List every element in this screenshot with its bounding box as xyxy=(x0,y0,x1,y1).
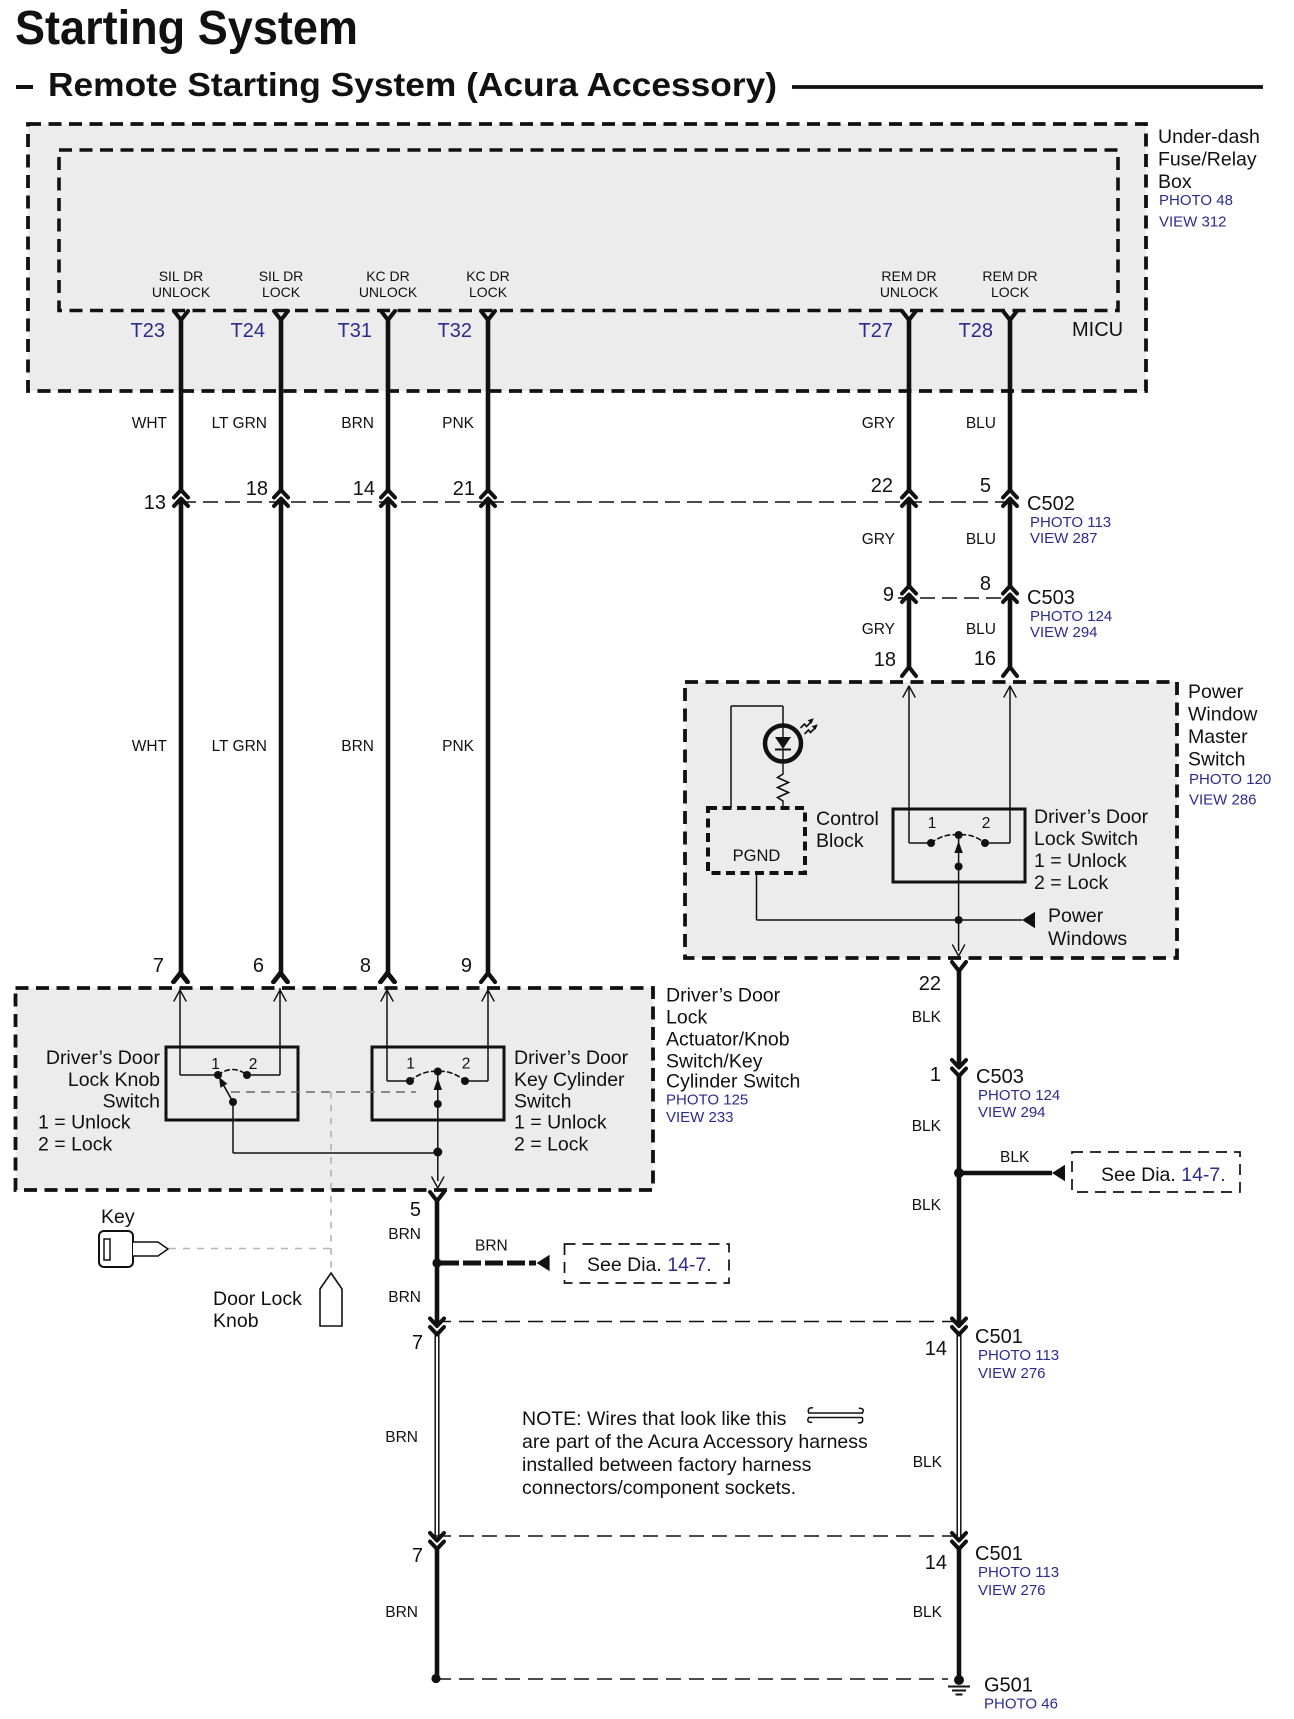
svg-text:VIEW 233: VIEW 233 xyxy=(666,1109,734,1126)
svg-text:PHOTO 120: PHOTO 120 xyxy=(1189,771,1271,788)
svg-text:T23: T23 xyxy=(131,320,165,342)
svg-text:LOCK: LOCK xyxy=(469,284,508,300)
svg-text:BRN: BRN xyxy=(385,1604,418,1621)
svg-text:T27: T27 xyxy=(859,320,893,342)
svg-text:7: 7 xyxy=(153,955,164,977)
svg-text:C503: C503 xyxy=(976,1066,1024,1088)
svg-text:Driver’s Door: Driver’s Door xyxy=(1034,806,1149,828)
svg-text:22: 22 xyxy=(871,475,893,497)
svg-text:6: 6 xyxy=(253,955,264,977)
svg-text:Driver’s Door: Driver’s Door xyxy=(46,1047,161,1069)
svg-text:8: 8 xyxy=(980,573,991,595)
svg-text:BLU: BLU xyxy=(966,531,996,548)
svg-text:8: 8 xyxy=(360,955,371,977)
svg-text:C501: C501 xyxy=(975,1326,1023,1348)
svg-text:Actuator/Knob: Actuator/Knob xyxy=(666,1029,790,1051)
svg-text:connectors/component sockets.: connectors/component sockets. xyxy=(522,1477,796,1499)
svg-text:7: 7 xyxy=(412,1545,423,1567)
svg-text:LOCK: LOCK xyxy=(991,284,1030,300)
svg-text:BRN: BRN xyxy=(475,1238,508,1255)
svg-text:VIEW 312: VIEW 312 xyxy=(1159,214,1227,231)
svg-text:PHOTO 124: PHOTO 124 xyxy=(1030,608,1112,625)
svg-text:VIEW 286: VIEW 286 xyxy=(1189,792,1257,809)
svg-text:T32: T32 xyxy=(438,320,472,342)
svg-text:Master: Master xyxy=(1188,726,1248,748)
svg-text:PHOTO 124: PHOTO 124 xyxy=(978,1087,1060,1104)
svg-text:PHOTO 113: PHOTO 113 xyxy=(1030,514,1111,531)
svg-text:13: 13 xyxy=(144,492,166,514)
svg-text:PGND: PGND xyxy=(733,847,781,865)
svg-text:BLK: BLK xyxy=(1000,1149,1030,1166)
svg-text:BRN: BRN xyxy=(388,1289,421,1306)
svg-text:PNK: PNK xyxy=(442,738,475,755)
svg-text:VIEW 294: VIEW 294 xyxy=(978,1104,1046,1121)
svg-text:2: 2 xyxy=(982,815,991,832)
svg-text:T28: T28 xyxy=(959,320,993,342)
svg-text:Door Lock: Door Lock xyxy=(213,1288,302,1310)
svg-text:2 = Lock: 2 = Lock xyxy=(514,1134,589,1156)
svg-text:Control: Control xyxy=(816,808,879,830)
svg-text:5: 5 xyxy=(980,475,991,497)
svg-text:1: 1 xyxy=(930,1064,941,1086)
svg-text:22: 22 xyxy=(919,973,941,995)
svg-text:1 = Unlock: 1 = Unlock xyxy=(1034,850,1127,872)
svg-text:BLK: BLK xyxy=(912,1009,942,1026)
svg-text:1: 1 xyxy=(406,1056,415,1073)
svg-text:Box: Box xyxy=(1158,171,1192,193)
svg-text:WHT: WHT xyxy=(132,738,168,755)
svg-text:KC DR: KC DR xyxy=(366,268,410,284)
svg-text:UNLOCK: UNLOCK xyxy=(152,284,211,300)
svg-text:Switch: Switch xyxy=(514,1091,571,1113)
svg-text:VIEW 287: VIEW 287 xyxy=(1030,530,1098,547)
svg-text:KC DR: KC DR xyxy=(466,268,510,284)
svg-text:BLK: BLK xyxy=(912,1197,942,1214)
svg-text:VIEW 276: VIEW 276 xyxy=(978,1365,1046,1382)
svg-text:14: 14 xyxy=(925,1338,947,1360)
svg-text:PHOTO 46: PHOTO 46 xyxy=(984,1696,1058,1713)
svg-text:UNLOCK: UNLOCK xyxy=(359,284,418,300)
svg-text:14: 14 xyxy=(925,1552,947,1574)
svg-text:C501: C501 xyxy=(975,1543,1023,1565)
svg-text:PHOTO 125: PHOTO 125 xyxy=(666,1092,748,1109)
svg-text:Starting System: Starting System xyxy=(15,1,358,55)
svg-text:LT GRN: LT GRN xyxy=(212,415,267,432)
svg-text:See Dia. 14-7.: See Dia. 14-7. xyxy=(1101,1164,1226,1186)
svg-text:18: 18 xyxy=(874,649,896,671)
svg-text:18: 18 xyxy=(246,478,268,500)
svg-text:PNK: PNK xyxy=(442,415,475,432)
svg-text:Power: Power xyxy=(1188,681,1244,703)
svg-text:are part of the Acura Accessor: are part of the Acura Accessory harness xyxy=(522,1431,868,1453)
svg-text:T31: T31 xyxy=(338,320,372,342)
svg-text:Block: Block xyxy=(816,830,864,852)
svg-text:Switch: Switch xyxy=(103,1091,160,1113)
svg-text:Window: Window xyxy=(1188,704,1258,726)
svg-text:Cylinder Switch: Cylinder Switch xyxy=(666,1071,800,1093)
svg-text:2 = Lock: 2 = Lock xyxy=(38,1134,113,1156)
svg-text:Switch: Switch xyxy=(1188,749,1245,771)
svg-text:Key Cylinder: Key Cylinder xyxy=(514,1069,625,1091)
svg-text:LT GRN: LT GRN xyxy=(212,738,267,755)
svg-text:Remote Starting System (Acura: Remote Starting System (Acura Accessory) xyxy=(48,66,777,103)
svg-text:2 = Lock: 2 = Lock xyxy=(1034,872,1109,894)
svg-text:installed between factory harn: installed between factory harness xyxy=(522,1454,812,1476)
svg-text:Driver’s Door: Driver’s Door xyxy=(514,1047,629,1069)
svg-text:21: 21 xyxy=(453,478,475,500)
svg-text:9: 9 xyxy=(461,955,472,977)
svg-text:Knob: Knob xyxy=(213,1310,259,1332)
svg-text:C502: C502 xyxy=(1027,493,1075,515)
svg-text:T24: T24 xyxy=(231,320,265,342)
svg-text:GRY: GRY xyxy=(862,531,895,548)
svg-text:1 = Unlock: 1 = Unlock xyxy=(38,1112,131,1134)
svg-text:REM DR: REM DR xyxy=(881,268,936,284)
svg-text:SIL DR: SIL DR xyxy=(159,268,204,284)
svg-text:Lock Switch: Lock Switch xyxy=(1034,828,1138,850)
svg-text:BLK: BLK xyxy=(912,1118,942,1135)
svg-text:REM DR: REM DR xyxy=(982,268,1037,284)
svg-text:PHOTO 48: PHOTO 48 xyxy=(1159,192,1233,209)
svg-text:See Dia. 14-7.: See Dia. 14-7. xyxy=(587,1254,712,1276)
svg-text:Key: Key xyxy=(101,1206,135,1228)
svg-text:VIEW 276: VIEW 276 xyxy=(978,1582,1046,1599)
svg-text:BLK: BLK xyxy=(913,1604,943,1621)
svg-text:1: 1 xyxy=(928,815,937,832)
svg-text:C503: C503 xyxy=(1027,587,1075,609)
svg-text:14: 14 xyxy=(353,478,375,500)
svg-text:BRN: BRN xyxy=(388,1226,421,1243)
svg-text:WHT: WHT xyxy=(132,415,168,432)
svg-text:2: 2 xyxy=(249,1056,258,1073)
svg-text:VIEW 294: VIEW 294 xyxy=(1030,624,1098,641)
svg-text:GRY: GRY xyxy=(862,415,895,432)
svg-text:NOTE: Wires that look like thi: NOTE: Wires that look like this xyxy=(522,1408,787,1430)
svg-text:Lock: Lock xyxy=(666,1007,707,1029)
svg-text:Windows: Windows xyxy=(1048,928,1127,950)
svg-text:BRN: BRN xyxy=(341,738,374,755)
svg-text:BRN: BRN xyxy=(385,1429,418,1446)
svg-text:BLU: BLU xyxy=(966,621,996,638)
svg-text:PHOTO 113: PHOTO 113 xyxy=(978,1347,1059,1364)
svg-text:1: 1 xyxy=(211,1056,220,1073)
svg-text:SIL DR: SIL DR xyxy=(259,268,304,284)
svg-text:BLK: BLK xyxy=(913,1454,943,1471)
svg-text:9: 9 xyxy=(883,584,894,606)
svg-text:PHOTO 113: PHOTO 113 xyxy=(978,1564,1059,1581)
svg-text:16: 16 xyxy=(974,648,996,670)
svg-text:7: 7 xyxy=(412,1332,423,1354)
svg-text:1 = Unlock: 1 = Unlock xyxy=(514,1112,607,1134)
svg-text:Under-dash: Under-dash xyxy=(1158,126,1260,148)
svg-text:MICU: MICU xyxy=(1072,319,1123,341)
svg-text:Lock Knob: Lock Knob xyxy=(68,1069,160,1091)
svg-text:UNLOCK: UNLOCK xyxy=(880,284,939,300)
svg-text:Power: Power xyxy=(1048,905,1104,927)
svg-text:GRY: GRY xyxy=(862,621,895,638)
svg-text:BRN: BRN xyxy=(341,415,374,432)
svg-text:Switch/Key: Switch/Key xyxy=(666,1051,763,1073)
svg-text:Driver’s Door: Driver’s Door xyxy=(666,985,781,1007)
svg-text:Fuse/Relay: Fuse/Relay xyxy=(1158,149,1257,171)
svg-text:BLU: BLU xyxy=(966,415,996,432)
svg-text:5: 5 xyxy=(410,1199,421,1221)
svg-text:2: 2 xyxy=(462,1056,471,1073)
svg-text:LOCK: LOCK xyxy=(262,284,301,300)
svg-text:G501: G501 xyxy=(984,1675,1033,1697)
